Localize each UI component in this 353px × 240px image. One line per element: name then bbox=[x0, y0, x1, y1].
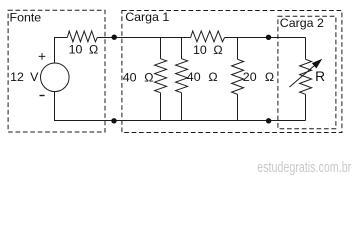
resistor R1 10 Ω (Fonte series) bbox=[67, 31, 97, 42]
wire bottom lead resistor 40a bbox=[160, 93, 162, 121]
variable resistor arrowhead bbox=[312, 59, 323, 69]
svg-text:40 Ω: 40 Ω bbox=[123, 70, 154, 84]
svg-text:Carga 1: Carga 1 bbox=[125, 10, 169, 24]
node dot top right bbox=[266, 35, 271, 40]
Carga 2 box bbox=[278, 16, 336, 128]
wire top lead resistor 40a bbox=[160, 38, 162, 59]
svg-text:Carga 2: Carga 2 bbox=[280, 16, 324, 30]
wire top rail R2 to Carga 2 corner bbox=[225, 37, 306, 39]
node dot bottom left bbox=[111, 118, 116, 123]
svg-text:10 Ω: 10 Ω bbox=[193, 43, 223, 57]
wire source top to rail bbox=[55, 38, 68, 63]
bottom rail wire bbox=[55, 92, 306, 121]
wire top rail R1 to R2 bbox=[97, 37, 190, 39]
svg-text:R: R bbox=[315, 69, 325, 84]
node dot bottom right bbox=[266, 118, 271, 123]
Carga 1 box bbox=[122, 11, 342, 133]
wire bottom lead resistor 20 bbox=[237, 94, 239, 120]
resistor R3 40 Ω bbox=[155, 59, 167, 93]
Fonte box bbox=[8, 10, 105, 132]
svg-text:Fonte: Fonte bbox=[10, 10, 42, 24]
wire top lead resistor 20 bbox=[237, 38, 239, 60]
wire top lead resistor 40b bbox=[181, 38, 183, 59]
svg-text:estudegratis.com.br: estudegratis.com.br bbox=[257, 158, 352, 175]
svg-text:12 V: 12 V bbox=[10, 70, 39, 84]
resistor R5 20 Ω bbox=[232, 59, 244, 94]
voltage source V1 circle bbox=[41, 63, 70, 92]
wire bottom lead variable resistor R bbox=[305, 94, 307, 120]
node dot top left bbox=[112, 35, 117, 40]
svg-text:20 Ω: 20 Ω bbox=[243, 70, 274, 84]
variable resistor arrow shaft bbox=[290, 66, 315, 88]
resistor R2 10 Ω (Carga 1 series) bbox=[191, 31, 225, 42]
svg-text:40 Ω: 40 Ω bbox=[187, 70, 218, 84]
+ polarity mark bbox=[39, 53, 46, 60]
svg-text:10 Ω: 10 Ω bbox=[69, 43, 99, 57]
- polarity mark bbox=[40, 95, 45, 97]
resistor R4 40 Ω bbox=[176, 59, 188, 93]
variable resistor R body bbox=[300, 59, 312, 94]
wire bottom lead resistor 40b bbox=[181, 93, 183, 121]
wire top lead variable resistor R bbox=[305, 38, 307, 60]
